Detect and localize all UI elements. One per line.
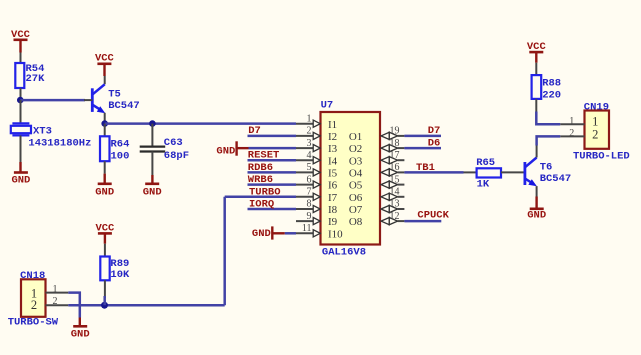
resistor R64 bbox=[100, 124, 129, 174]
wire net CPUCK from U7 pin 12 bbox=[404, 220, 441, 223]
U7 pin 1 (I1) bbox=[296, 113, 337, 130]
wire R88 to CN19 pin 1 bbox=[536, 112, 560, 125]
svg-text:D6: D6 bbox=[428, 138, 441, 150]
svg-text:T5: T5 bbox=[108, 88, 121, 100]
U7 pin 11 (I10) bbox=[296, 223, 343, 240]
svg-text:O6: O6 bbox=[349, 192, 363, 204]
ground GND at C63 bbox=[143, 175, 162, 199]
svg-text:IORQ: IORQ bbox=[249, 199, 274, 211]
wire net D6 from U7 pin 18 bbox=[404, 147, 441, 150]
svg-text:WRB6: WRB6 bbox=[248, 174, 273, 186]
op-amp/PLD U7 GAL16V8 body bbox=[321, 100, 381, 259]
U7 pin 2 (I2) bbox=[296, 126, 337, 143]
svg-text:2: 2 bbox=[569, 128, 574, 139]
svg-text:I6: I6 bbox=[328, 180, 338, 192]
svg-text:2: 2 bbox=[592, 128, 598, 142]
power VCC at R88 bbox=[527, 41, 547, 63]
junction node A (R54/XT3/T5 base) bbox=[17, 97, 24, 104]
ground GND at U7 pin 3 bbox=[216, 141, 248, 157]
connector CN19 TURBO-LED bbox=[560, 102, 629, 163]
svg-text:R65: R65 bbox=[476, 157, 495, 169]
svg-text:O4: O4 bbox=[349, 168, 363, 180]
svg-text:C63: C63 bbox=[164, 137, 183, 149]
svg-text:GND: GND bbox=[71, 329, 90, 341]
transistor T6 BC547 bbox=[525, 146, 571, 197]
svg-text:220: 220 bbox=[542, 89, 561, 101]
junction node B (T5 emitter) bbox=[101, 120, 108, 127]
svg-text:GND: GND bbox=[11, 175, 30, 187]
svg-text:GND: GND bbox=[95, 187, 114, 199]
svg-text:GND: GND bbox=[216, 145, 235, 157]
capacitor C63 bbox=[140, 124, 189, 175]
crystal XT3 bbox=[11, 100, 92, 162]
wire net TB1 from U7 pin 16 to R65 bbox=[404, 171, 463, 174]
svg-text:2: 2 bbox=[307, 126, 312, 137]
ground GND at R64 bbox=[95, 174, 114, 199]
svg-text:I7: I7 bbox=[328, 192, 338, 204]
svg-text:I9: I9 bbox=[328, 216, 338, 228]
svg-text:8: 8 bbox=[307, 199, 312, 210]
svg-text:TURBO-SW: TURBO-SW bbox=[8, 317, 59, 329]
svg-text:TURBO-LED: TURBO-LED bbox=[573, 150, 630, 162]
junction node D (R89/CN18/TURBO) bbox=[101, 302, 108, 309]
svg-text:R64: R64 bbox=[111, 139, 130, 151]
wire net IORQ to U7 pin 8 bbox=[248, 208, 297, 211]
U7 pin 12 (O8) bbox=[349, 211, 405, 228]
svg-text:RESET: RESET bbox=[248, 150, 280, 162]
wire net RESET to U7 pin 4 bbox=[248, 159, 297, 162]
U7 pin 17 (O3) bbox=[349, 150, 405, 167]
U7 pin 14 (O6) bbox=[349, 187, 405, 204]
svg-text:4: 4 bbox=[307, 150, 312, 161]
svg-text:TURBO: TURBO bbox=[249, 186, 281, 198]
svg-text:1K: 1K bbox=[477, 179, 490, 191]
U7 pin 5 (I5) bbox=[296, 162, 338, 179]
svg-text:GND: GND bbox=[143, 187, 162, 199]
svg-text:TB1: TB1 bbox=[416, 162, 435, 174]
wire net D7 to U7 pin 2 bbox=[248, 135, 297, 138]
power VCC at R89 bbox=[95, 222, 115, 243]
svg-text:BC547: BC547 bbox=[108, 100, 140, 112]
svg-text:15: 15 bbox=[390, 174, 400, 185]
svg-text:6: 6 bbox=[307, 174, 312, 185]
svg-text:D7: D7 bbox=[248, 125, 261, 137]
junction node C (C63 tap) bbox=[149, 120, 156, 127]
svg-text:I10: I10 bbox=[328, 228, 343, 240]
wire net WRB6 to U7 pin 6 bbox=[248, 183, 297, 186]
svg-text:RDB6: RDB6 bbox=[248, 162, 273, 174]
svg-text:1: 1 bbox=[592, 115, 598, 129]
svg-text:1: 1 bbox=[569, 116, 574, 127]
U7 pin 16 (O4) bbox=[349, 162, 405, 179]
wire CN18 pin 2 / R89 bus to TURBO bbox=[68, 304, 224, 307]
svg-text:O1: O1 bbox=[349, 131, 362, 143]
svg-text:U7: U7 bbox=[321, 100, 334, 112]
svg-text:19: 19 bbox=[390, 126, 400, 137]
U7 pin 8 (I8) bbox=[296, 199, 338, 216]
svg-text:I3: I3 bbox=[328, 143, 338, 155]
svg-text:O5: O5 bbox=[349, 180, 363, 192]
U7 pin 4 (I4) bbox=[296, 150, 338, 167]
ground GND at CN18 bbox=[71, 318, 90, 341]
svg-text:1: 1 bbox=[53, 284, 58, 295]
svg-text:I4: I4 bbox=[328, 155, 338, 167]
wire net D7 from U7 pin 19 bbox=[404, 135, 441, 138]
wire CN18 pin 1 to GND bbox=[68, 293, 80, 318]
wire net TURBO to U7 pin 7 bbox=[225, 196, 296, 199]
connector CN18 TURBO-SW bbox=[8, 270, 69, 329]
wire node A to T5 base bbox=[20, 99, 85, 102]
transistor T5 BC547 bbox=[84, 76, 140, 124]
svg-text:17: 17 bbox=[390, 150, 400, 161]
svg-text:68pF: 68pF bbox=[164, 150, 189, 162]
svg-text:9: 9 bbox=[307, 211, 312, 222]
resistor R88 bbox=[532, 63, 562, 112]
svg-text:O3: O3 bbox=[349, 155, 363, 167]
ground GND at T6 emitter bbox=[527, 197, 546, 222]
svg-text:GND: GND bbox=[252, 228, 271, 240]
wire net RDB6 to U7 pin 5 bbox=[248, 171, 297, 174]
wire R89 to node D bbox=[103, 296, 106, 305]
wire T5 emitter to U7 pin 1 bbox=[105, 122, 296, 125]
svg-text:12: 12 bbox=[390, 211, 400, 222]
U7 pin 19 (O1) bbox=[349, 126, 405, 143]
U7 pin 15 (O5) bbox=[349, 174, 405, 191]
svg-text:I5: I5 bbox=[328, 168, 338, 180]
svg-text:GAL16V8: GAL16V8 bbox=[322, 247, 366, 259]
svg-text:27K: 27K bbox=[26, 73, 46, 85]
svg-text:14318180Hz: 14318180Hz bbox=[28, 138, 91, 150]
resistor R54 bbox=[15, 53, 45, 101]
resistor R65 bbox=[464, 157, 525, 191]
wire GND to U7 pin 3 bbox=[249, 147, 297, 150]
U7 pin 9 (I9) bbox=[296, 211, 338, 228]
resistor R89 bbox=[100, 244, 130, 298]
wire TURBO vertical to bottom bus bbox=[223, 197, 226, 305]
svg-text:BC547: BC547 bbox=[540, 173, 572, 185]
svg-text:11: 11 bbox=[302, 223, 312, 234]
U7 pin 18 (O2) bbox=[349, 138, 405, 155]
svg-text:CPUCK: CPUCK bbox=[417, 210, 449, 222]
ground GND at U7 pin 11 bbox=[252, 226, 285, 239]
svg-text:5: 5 bbox=[307, 162, 312, 173]
svg-text:O8: O8 bbox=[349, 216, 363, 228]
power VCC at T5 collector bbox=[95, 52, 115, 76]
svg-text:2: 2 bbox=[53, 296, 58, 307]
svg-text:I2: I2 bbox=[328, 131, 337, 143]
U7 pin 13 (O7) bbox=[349, 199, 405, 216]
svg-text:16: 16 bbox=[390, 162, 400, 173]
svg-text:R88: R88 bbox=[542, 77, 561, 89]
U7 pin 7 (I7) bbox=[296, 187, 338, 204]
svg-text:R89: R89 bbox=[110, 258, 129, 270]
power VCC at R54 bbox=[11, 29, 31, 53]
svg-text:T6: T6 bbox=[540, 162, 553, 174]
svg-text:14: 14 bbox=[390, 187, 400, 198]
U7 pin 6 (I6) bbox=[296, 174, 338, 191]
svg-text:O7: O7 bbox=[349, 204, 363, 216]
svg-text:D7: D7 bbox=[428, 125, 441, 137]
svg-text:7: 7 bbox=[307, 187, 312, 198]
svg-text:I8: I8 bbox=[328, 204, 338, 216]
svg-text:GND: GND bbox=[527, 210, 546, 222]
svg-text:I1: I1 bbox=[328, 119, 337, 131]
svg-text:10K: 10K bbox=[110, 269, 130, 281]
svg-text:1: 1 bbox=[307, 113, 312, 124]
wire GND to U7 pin 11 bbox=[285, 232, 296, 235]
U7 pin 3 (I3) bbox=[296, 138, 338, 155]
svg-text:3: 3 bbox=[307, 138, 312, 149]
svg-text:100: 100 bbox=[111, 150, 130, 162]
svg-text:13: 13 bbox=[390, 199, 400, 210]
svg-text:2: 2 bbox=[31, 298, 37, 312]
wire T6 collector to CN19 pin 2 bbox=[537, 136, 561, 145]
svg-text:O2: O2 bbox=[349, 143, 362, 155]
svg-text:XT3: XT3 bbox=[33, 125, 52, 137]
ground GND at XT3 bbox=[11, 162, 30, 187]
svg-text:18: 18 bbox=[390, 138, 400, 149]
